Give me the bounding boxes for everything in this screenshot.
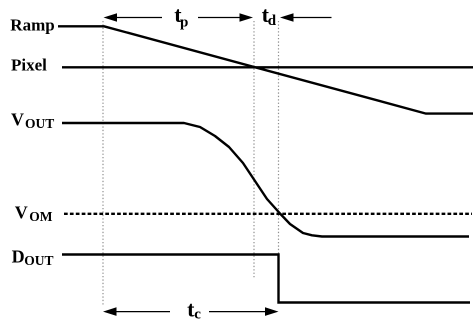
dimension arrow td (left head pointing left) xyxy=(280,13,332,22)
node t2 dotted guide line xyxy=(253,21,255,278)
svg-text:V: V xyxy=(15,203,28,223)
dimension arrow tp (left head) xyxy=(104,13,163,22)
svg-text:OM: OM xyxy=(29,209,53,224)
label VOUT xyxy=(11,110,54,131)
wire Pixel signal xyxy=(62,66,473,68)
wire DOUT signal xyxy=(62,255,470,303)
label tc xyxy=(187,296,201,322)
dimension arrow tp (right head) xyxy=(198,13,253,22)
svg-text:OUT: OUT xyxy=(24,253,53,268)
svg-text:d: d xyxy=(268,13,277,29)
svg-text:c: c xyxy=(194,306,201,322)
node t3 dotted guide line xyxy=(278,21,280,256)
label DOUT xyxy=(12,247,54,269)
wire VOM dashed threshold line xyxy=(64,213,472,215)
svg-text:OUT: OUT xyxy=(25,116,54,131)
wire Ramp signal xyxy=(58,26,473,113)
svg-text:Pixel: Pixel xyxy=(11,56,47,75)
label VOM xyxy=(15,203,53,225)
dimension arrow tc (right head) xyxy=(209,307,279,316)
wire VOUT comparator output curve xyxy=(62,123,469,237)
svg-text:Ramp: Ramp xyxy=(10,15,54,34)
dimension arrow tc (left head) xyxy=(103,307,170,316)
svg-text:V: V xyxy=(11,110,24,130)
label tp xyxy=(174,2,188,30)
label td xyxy=(262,2,277,29)
node t1 dotted guide line xyxy=(102,21,104,305)
svg-text:D: D xyxy=(12,247,25,267)
svg-text:p: p xyxy=(180,14,188,30)
